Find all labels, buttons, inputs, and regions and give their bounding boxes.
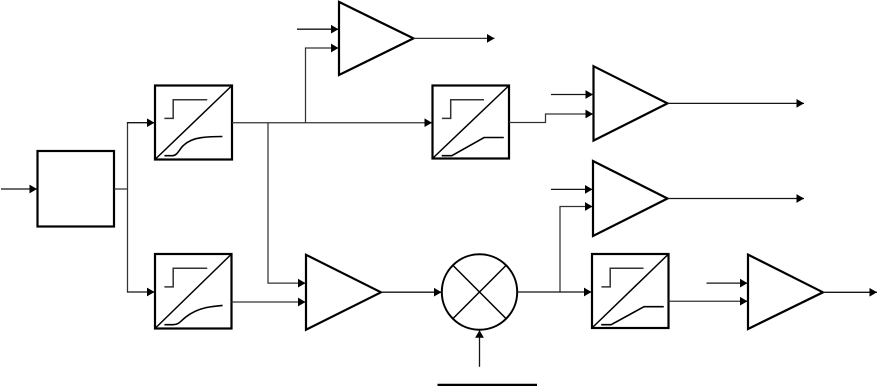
wire A4 output arrow (668, 198, 805, 200)
wire arrow into limiter L1 (127, 122, 155, 124)
partial element edge at bottom (cropped block top border) (438, 384, 538, 386)
wire vertical splitter trunk (127, 123, 129, 292)
wire input arrow into input block (1, 188, 37, 190)
wire L1 output to L3 input (232, 122, 432, 124)
wire L4 output to amp A5 second input (669, 300, 748, 302)
wire A1 output arrow (414, 37, 495, 39)
op-amp A4 (middle right amplifier) (593, 161, 668, 236)
limiter L3 (hard-limiter block, ramp symbol) (433, 86, 510, 159)
wire L2 output to amp A2 second input (232, 301, 306, 303)
wire A5 output arrow (823, 291, 877, 293)
wire mixer output to limiter L4 (517, 291, 591, 293)
wire stub arrow into amp A4 first input (551, 188, 593, 190)
op-amp A5 (bottom right amplifier) (748, 255, 823, 329)
wire stub arrow into amp A5 first input (707, 282, 748, 284)
wire stub arrow into amp A1 first input (297, 28, 339, 30)
op-amp A1 (top amplifier) (339, 2, 414, 75)
wire A3 output arrow (668, 102, 805, 104)
op-amp A3 (upper right amplifier) (594, 66, 668, 140)
op-amp A2 (bottom left amplifier) (306, 255, 381, 330)
limiter L2 (soft-limiter block, step-response symbol) (155, 254, 232, 329)
limiter L1 (soft-limiter block, step-response symbol) (155, 86, 232, 160)
wire branch from mixer output line up to amp A4 second input (560, 207, 593, 293)
wire branch up to amp A1 second input (306, 48, 339, 123)
input block B1 (38, 151, 115, 227)
wire LO arrow up into mixer bottom (479, 330, 481, 367)
wire L3 output jog to amp A3 second input (509, 114, 593, 123)
mixer M1 (multiplier) (442, 254, 517, 329)
wire arrow into limiter L2 (127, 291, 155, 293)
wire branch down to amp A2 first input (268, 123, 306, 283)
wire A2 output arrow into mixer (381, 291, 442, 293)
limiter L4 (hard-limiter block, ramp symbol) (592, 254, 669, 328)
wire stub arrow into amp A3 first input (551, 94, 593, 96)
wire from B1 output to splitter trunk (114, 188, 128, 190)
